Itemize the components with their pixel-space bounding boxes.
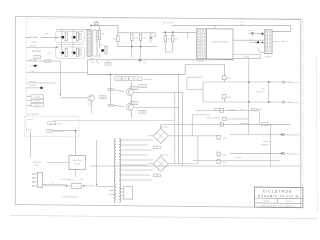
svg-text:R72: R72 [175,39,178,41]
svg-text:PROTECT: PROTECT [261,144,269,146]
svg-text:PartB: PartB [140,110,145,113]
svg-text:2200u: 2200u [258,109,263,111]
svg-text:C 1n: C 1n [143,59,147,61]
svg-text:R L 1 0 2 1: R L 1 0 2 1 [163,22,174,24]
svg-text:D12: D12 [106,63,109,65]
svg-text:LED1 W: LED1 W [26,129,33,131]
svg-text:1 Bar: 1 Bar [47,53,51,55]
svg-text:F2 10A: F2 10A [236,156,242,159]
svg-text:1N4744A: 1N4744A [132,78,140,81]
svg-text:LED R: LED R [28,119,34,121]
svg-text:GRN 10k: GRN 10k [29,81,36,83]
svg-text:SIG 10k: SIG 10k [30,45,37,47]
svg-text:TamA4: TamA4 [263,200,270,203]
svg-text:DATA 12 03 2007 ESC 1 1 FOLHA: DATA 12 03 2007 ESC 1 1 FOLHA 1 1 [262,204,297,207]
svg-text:SPEAKER OUT R: SPEAKER OUT R [286,81,301,84]
svg-text:CLAMP: CLAMP [243,55,250,58]
svg-text:MAIN FUSE: MAIN FUSE [240,122,250,125]
svg-text:PartA: PartA [140,85,145,88]
svg-text:AMP SPK: AMP SPK [263,140,271,143]
svg-text:LED2 GRN8: LED2 GRN8 [54,131,63,133]
svg-text:C2b: C2b [241,109,244,111]
svg-text:MAIN CONNECT: MAIN CONNECT [207,116,220,119]
svg-text:ZENER 15V: ZENER 15V [144,79,154,81]
svg-text:TRANS: TRANS [74,162,81,165]
svg-text:R62: R62 [135,38,138,40]
svg-text:C2: C2 [156,175,158,177]
svg-text:TIP42: TIP42 [131,103,136,105]
svg-text:C210: C210 [223,138,227,140]
svg-text:+15V: +15V [90,62,95,64]
svg-text:A1023: A1023 [57,122,62,125]
svg-text:DYNAMIC 10 250 W: DYNAMIC 10 250 W [258,194,299,198]
svg-text:R95: R95 [228,78,231,80]
svg-text:0R22 5W: 0R22 5W [256,91,263,93]
svg-text:C80: C80 [249,30,252,32]
svg-text:MAIN SW: MAIN SW [33,161,41,164]
svg-text:R97: R97 [262,89,265,91]
svg-text:25V: 25V [143,62,147,64]
svg-text:F1: F1 [264,124,266,126]
svg-text:COMP AMP MODU: COMP AMP MODU [212,40,229,43]
svg-text:R30: R30 [101,97,104,99]
svg-text:Q 2: Q 2 [88,104,91,106]
svg-text:BR200 35A: BR200 35A [160,126,170,129]
svg-text:SPEAKER OUT L: SPEAKER OUT L [286,101,300,104]
svg-text:R61: R61 [113,38,116,40]
svg-text:D15: D15 [116,79,119,81]
svg-text:LED A: LED A [35,95,41,98]
svg-text:C1: C1 [156,147,158,149]
svg-text:R96: R96 [228,97,231,99]
svg-text:LED GRN BAL: LED GRN BAL [28,113,39,116]
svg-text:BR201 35A: BR201 35A [160,154,170,157]
svg-text:RECTIFIER: RECTIFIER [73,160,83,162]
svg-text:250V: 250V [35,165,40,167]
svg-text:SPK IN: SPK IN [281,41,288,43]
svg-text:CLAMP20: CLAMP20 [264,55,272,58]
svg-text:C211: C211 [223,154,227,156]
svg-text:Q1: Q1 [55,37,57,39]
svg-text:POWER AMPL: POWER AMPL [95,31,98,42]
svg-text:T: T [127,194,128,196]
svg-text:LED C: LED C [35,105,41,107]
svg-text:L1: L1 [53,183,55,185]
svg-text:CHASSIS VIRTUAL: CHASSIS VIRTUAL [63,195,78,198]
svg-text:C112: C112 [35,56,39,58]
svg-text:D 60: D 60 [90,58,94,60]
svg-text:R71: R71 [168,39,171,41]
svg-text:R63: R63 [143,38,146,40]
svg-text:C64: C64 [153,36,156,38]
svg-text:GND BAL1: GND BAL1 [32,50,41,53]
svg-text:VR 850: VR 850 [29,71,35,73]
svg-text:220V: 220V [80,179,85,181]
svg-text:S1: S1 [76,186,78,188]
svg-text:IN BAL: IN BAL [32,40,38,43]
svg-text:SPEAKER OUT L: SPEAKER OUT L [286,152,300,155]
svg-text:C212: C212 [223,162,227,164]
svg-text:RED GRN: RED GRN [29,59,38,61]
svg-text:1 Bia: 1 Bia [45,33,49,35]
svg-text:LED B: LED B [35,101,41,103]
svg-text:SELECTOR 110V: SELECTOR 110V [61,179,75,181]
svg-text:Av.rev1: Av.rev1 [286,200,293,203]
svg-text:R10: R10 [100,44,103,46]
svg-text:SPEAKER OUT R: SPEAKER OUT R [286,134,301,137]
svg-text:D300: D300 [50,123,54,125]
svg-text:1N4148: 1N4148 [29,85,35,87]
svg-text:TIP41: TIP41 [131,88,136,90]
svg-text:R50: R50 [102,34,105,36]
